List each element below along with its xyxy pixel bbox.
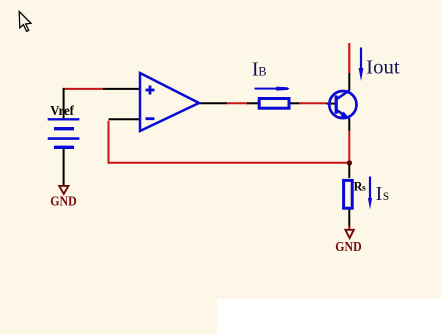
svg-text:Vref: Vref [50, 104, 74, 119]
transistor emitter stroke [337, 110, 350, 119]
svg-text:s: s [362, 183, 366, 194]
battery Vref plate 4 (short thick) [54, 146, 74, 149]
pin transistor collector (black) [348, 73, 350, 91]
svg-text:S: S [383, 191, 389, 203]
wire output red segment [227, 102, 249, 104]
pin resistor right (black) [288, 102, 300, 104]
battery Vref plate 2 (short thick) [54, 127, 74, 130]
wire plus-input red segment [63, 88, 104, 90]
transistor collector stroke [337, 90, 350, 99]
white panel bottom-right [217, 299, 441, 334]
resistor (base) rectangle [259, 99, 289, 109]
wire feedback vertical red [108, 121, 110, 164]
resistor Rs rectangle [344, 180, 353, 208]
transistor base bar [335, 95, 338, 113]
ground symbol left [59, 186, 68, 194]
wire emitter red vertical [348, 131, 350, 164]
pin op-amp plus input (black) [103, 88, 140, 90]
battery Vref plate 1 (long) [48, 118, 80, 120]
pin transistor emitter (black) [348, 119, 350, 132]
op-amp U1 triangle [140, 73, 199, 131]
current arrow Is (blue) [368, 177, 372, 210]
op-amp minus mark [146, 117, 155, 120]
pin transistor base (black) [327, 103, 337, 105]
pin op-amp output (black) [199, 102, 227, 104]
ground symbol right [345, 230, 353, 238]
current arrow Iout (blue) [359, 48, 364, 82]
op-amp plus mark [146, 86, 155, 95]
wire feedback horizontal red [109, 162, 350, 164]
pin op-amp minus input (black) [109, 118, 141, 120]
svg-text:GND: GND [335, 239, 361, 254]
svg-text:B: B [258, 65, 266, 79]
svg-text:I: I [376, 183, 383, 205]
transistor Q1 circle [329, 91, 356, 118]
svg-text:Iout: Iout [366, 57, 400, 79]
pin battery bottom (black) [63, 148, 65, 186]
pin resistor left (black) [247, 102, 260, 104]
battery Vref plate 3 (long) [48, 137, 80, 140]
wire red stub above right ground [348, 226, 350, 230]
pin Rs bottom (black) [348, 209, 350, 227]
pin Rs top (black) [348, 164, 350, 178]
wire collector red vertical [348, 43, 350, 73]
current arrow IB (blue) [255, 87, 290, 91]
wire Vref top pin (black vertical) [63, 88, 65, 119]
wire base red segment [299, 102, 327, 104]
transistor emitter arrowhead [340, 112, 349, 119]
mouse cursor [19, 12, 31, 32]
svg-text:GND: GND [50, 193, 76, 208]
junction node dot [347, 160, 352, 165]
